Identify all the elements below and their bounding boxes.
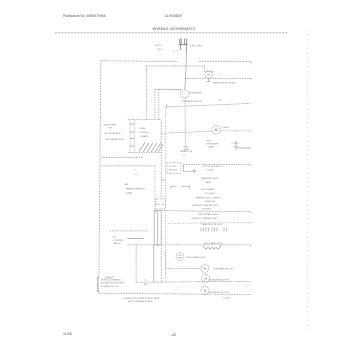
right terminal cluster [234,141,251,151]
svg-text:SWITCH: SWITCH [169,170,178,172]
wire left row y238.6 [127,238,144,240]
wire row y221 dotted [168,222,251,224]
line cord plug [179,39,189,53]
svg-text:AN: AN [125,183,128,186]
svg-text:NOTE ALL WIRING 1: NOTE ALL WIRING 1 [101,278,123,281]
svg-text:AT DISPENSER [: AT DISPENSER [ [105,132,122,135]
svg-text:RT DOOR SWITCH: RT DOOR SWITCH [204,166,224,168]
relay verticals pair [154,211,161,245]
svg-text:Publication No: 5995479966: Publication No: 5995479966 [63,14,106,18]
svg-text:AC: AC [113,235,116,238]
lamp filament [215,129,218,132]
door switch dashed box [167,163,181,174]
wire row y245 [127,245,251,247]
svg-text:COMPRESSOR 120V: COMPRESSOR 120V [208,292,230,294]
wire outer left bus [99,61,101,294]
wire left row y231 dotted [110,230,149,232]
wire drop x183 [183,165,192,172]
svg-text:FRESH FOOD CONTROL: FRESH FOOD CONTROL [196,198,222,200]
compressor circle [201,286,209,294]
wire plug drop [185,52,187,61]
control board dashed box [128,120,162,153]
svg-text:LINE CORD: LINE CORD [190,46,202,48]
svg-text:WIRING SCHEMATIC: WIRING SCHEMATIC [153,26,196,31]
svg-text:RUN CAPACITOR: RUN CAPACITOR [204,242,222,245]
wire top bus left [101,60,178,63]
defrost relay dashed vertical [165,252,167,282]
vertical x155 lower [154,166,156,212]
run winding zigzag [204,245,221,249]
svg-text:ICE: ICE [207,141,211,143]
water valve circle [205,71,212,78]
svg-text:RUN CAPACITOR: RUN CAPACITOR [187,256,205,259]
pin group 2 [212,228,217,232]
wire top bus right [199,61,251,64]
wire right row y164 [183,165,251,167]
lamp row wire [161,131,251,134]
svg-text:CONTROL: CONTROL [113,240,124,242]
svg-text:DISPENSER: DISPENSER [206,144,219,146]
right fold dotted line [307,30,309,332]
pin group 3 [224,228,227,232]
wire vertical x158.8 [158,89,160,119]
title underline dashed separator [55,32,287,34]
svg-text:SHOWN WITH DOORS: SHOWN WITH DOORS [101,283,125,285]
note squiggle [105,276,114,279]
wire vertical x155 [154,89,156,119]
timer contact tick [144,283,146,285]
svg-text:POWER OFF 120: POWER OFF 120 [101,286,119,288]
svg-text:22: 22 [172,332,177,337]
svg-text:TRANSFORMER 12: TRANSFORMER 12 [126,188,147,191]
svg-text:DEFROST: DEFROST [205,201,216,203]
svg-text:DOOR: DOOR [169,166,176,168]
run capacitor circle [176,253,184,261]
svg-text:SUB FILTER →: SUB FILTER → [104,125,119,127]
svg-text:BOARD: BOARD [141,135,149,138]
note bracket [98,277,100,292]
motor marks [204,268,207,292]
svg-text:FREEZER LIGHT: FREEZER LIGHT [201,178,219,180]
capacitor plates [184,147,189,151]
wire bottom bus [99,293,251,294]
svg-text:SECONDARY WDG: SECONDARY WDG [199,213,219,216]
svg-text:SECONDARY: SECONDARY [201,188,215,191]
wire branch y89 [155,88,181,90]
svg-text:2-4 BK: 2-4 BK [207,169,214,171]
svg-text:EVAP FAN MOTOR: EVAP FAN MOTOR [214,268,234,271]
svg-text:11/06: 11/06 [63,332,72,336]
main vertical bus x161.5 [160,120,162,283]
svg-text:NA TRANSISTOR [: NA TRANSISTOR [ [106,138,125,141]
evap fan wire [166,268,201,270]
svg-text:DISPENSER: DISPENSER [189,92,202,94]
wire plug to solenoid [185,61,187,89]
svg-text:1-4 BK: 1-4 BK [223,298,230,300]
wire below solenoid [184,98,186,147]
svg-text:DEFROST HEATER 120V: DEFROST HEATER 120V [193,204,219,207]
svg-text:LIGHT: LIGHT [223,127,230,129]
svg-text:WATER SOLENOID: WATER SOLENOID [183,100,203,103]
svg-text:DATA: DATA [140,127,146,130]
cond fan circle [202,274,210,282]
vertical bus x166 dotted [165,107,167,269]
valve mark [207,74,210,76]
svg-text:HI-LIMIT: HI-LIMIT [203,209,212,211]
svg-text:DEFROST THERMOSTAT: DEFROST THERMOSTAT [192,217,218,220]
wire row y282 box bottom [136,281,251,282]
coil hatch [139,143,163,153]
svg-text:G: G [173,51,175,53]
wire left corner x136 [135,245,137,282]
svg-text:WH 2: WH 2 [157,49,163,51]
svg-text:CONNECTOR VIEWED FROM WIRE: CONNECTOR VIEWED FROM WIRE [123,298,160,300]
svg-text:SIDE TERMINAL BOARD: SIDE TERMINAL BOARD [128,300,153,303]
tick bus pair [161,179,165,181]
wire row y107 [166,103,251,109]
water valve stem [207,78,210,81]
svg-text:FF LIGHT: FF LIGHT [205,193,215,195]
svg-text:CAPACITOR: CAPACITOR [180,150,193,153]
wire inner vertical x146 [146,66,148,120]
water valve row wire [185,78,251,80]
run capacitor inner marks [178,255,182,257]
svg-text:LAMP: LAMP [208,146,214,149]
junction dot [157,245,159,247]
svg-text:GLHS36EE: GLHS36EE [165,14,183,18]
svg-text:TIMER MOTOR 120V: TIMER MOTOR 120V [201,224,223,226]
wire second top line [147,66,214,72]
svg-text:CONTROL: CONTROL [139,132,150,134]
svg-text:& FAN: & FAN [126,192,133,195]
svg-text:LAMP: LAMP [205,181,211,184]
svg-text:COND FAN MOTOR: COND FAN MOTOR [209,278,229,281]
wire mid-left row y166 [101,165,155,167]
wire row y211 [155,211,252,214]
ground dot [177,50,178,51]
svg-text:(MOLD): (MOLD) [113,243,121,245]
transformer cluster [156,199,166,209]
svg-text:4C: 4C [219,99,222,101]
svg-text:WATER VALVE 120VAC: WATER VALVE 120VAC [213,82,237,85]
control board connector dashed [130,120,135,153]
freezer light switch symbol [171,186,190,188]
switch contact circle [193,170,195,172]
pin group 1 [201,228,208,232]
connector pin ticks [130,124,135,146]
wire mid-left row y157 [101,156,144,158]
evap fan circle [201,265,209,273]
svg-text:BK 1-4: BK 1-4 [156,45,163,47]
dispenser solenoid circle [181,90,189,98]
dispenser lamp circle [212,126,220,134]
